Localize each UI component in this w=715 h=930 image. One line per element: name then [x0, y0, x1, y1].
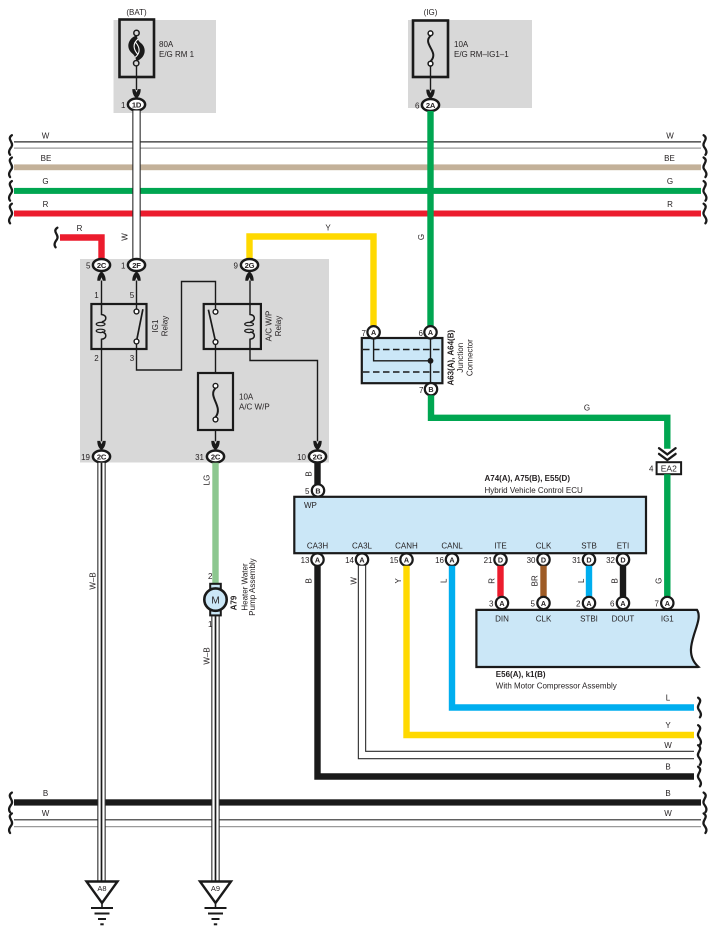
wire bus BE horizontal	[14, 154, 701, 170]
svg-text:BE: BE	[664, 154, 675, 163]
svg-text:2: 2	[208, 572, 213, 581]
wire L blue STB to STBI	[577, 566, 589, 597]
brace left of bus W bottom	[9, 813, 12, 833]
svg-text:30: 30	[527, 556, 536, 565]
svg-text:M: M	[211, 595, 219, 606]
connector B pin 7	[419, 383, 437, 395]
label With Motor Compressor Assembly	[496, 670, 617, 691]
svg-text:B: B	[305, 471, 314, 476]
svg-text:R: R	[667, 200, 673, 209]
svg-text:5: 5	[305, 487, 310, 496]
label Hybrid Vehicle Control ECU	[485, 474, 583, 495]
engine room relay block shading	[80, 259, 329, 463]
brace right of bus G	[703, 181, 706, 201]
svg-text:L: L	[666, 694, 671, 703]
BUSES	[9, 132, 706, 224]
svg-text:A63(A), A64(B): A63(A), A64(B)	[446, 330, 455, 386]
switch of A/C W/P relay	[208, 309, 218, 344]
connector B pin 5 on ECU	[305, 484, 324, 496]
arrow into connector 2A	[426, 90, 434, 100]
svg-text:W: W	[121, 233, 130, 241]
svg-text:DOUT: DOUT	[612, 614, 635, 623]
svg-text:W: W	[666, 132, 674, 141]
wire W white vertical from 1D to 2F	[121, 111, 137, 261]
brace right of wire L	[698, 698, 701, 718]
connector A pin 13	[301, 553, 324, 565]
label A79 Heater Water Pump Assembly	[230, 558, 258, 615]
svg-text:1: 1	[121, 101, 126, 110]
svg-text:D: D	[541, 555, 546, 564]
svg-text:DIN: DIN	[495, 614, 509, 623]
svg-text:W–B: W–B	[203, 647, 212, 664]
svg-text:31: 31	[572, 556, 581, 565]
svg-text:32: 32	[606, 556, 615, 565]
wire R red from brace to connector 2C	[60, 224, 102, 260]
svg-text:2C: 2C	[97, 261, 107, 270]
svg-text:B: B	[611, 578, 620, 583]
svg-text:E56(A), k1(B): E56(A), k1(B)	[496, 670, 546, 679]
svg-text:A: A	[586, 599, 591, 608]
ground A9	[200, 882, 231, 925]
wire from IG fuse to connector 2A	[430, 66, 432, 91]
svg-text:5: 5	[86, 262, 91, 271]
svg-text:W: W	[42, 809, 50, 818]
svg-text:14: 14	[345, 556, 354, 565]
svg-text:10: 10	[297, 453, 306, 462]
connector A pin 14	[345, 553, 368, 565]
connector D pin 30	[527, 553, 550, 565]
svg-text:G: G	[42, 177, 48, 186]
svg-text:CANL: CANL	[441, 542, 463, 551]
label A63(A), A64(B) Junction Connector	[446, 330, 474, 386]
relay A/C W/P box	[204, 304, 261, 349]
wire L blue CANL to right edge	[440, 566, 695, 708]
coil of A/C W/P relay	[250, 304, 254, 349]
svg-text:7: 7	[655, 600, 660, 609]
svg-text:A: A	[449, 555, 454, 564]
brace right of bus B	[703, 793, 706, 813]
svg-text:1: 1	[208, 620, 213, 629]
TOPFUSES	[120, 8, 510, 111]
svg-text:13: 13	[301, 556, 310, 565]
svg-text:4: 4	[649, 465, 654, 474]
wire pin3 IG1 relay to A/C W/P relay switch	[137, 282, 216, 371]
svg-text:A74(A), A75(B), E55(D): A74(A), A75(B), E55(D)	[485, 474, 571, 483]
svg-text:2: 2	[576, 600, 581, 609]
arrow into 2C pin 19	[97, 441, 105, 451]
wire bus W horizontal top	[14, 132, 701, 149]
svg-text:10A: 10A	[239, 393, 254, 402]
svg-text:B: B	[305, 578, 314, 583]
svg-text:W–B: W–B	[89, 572, 98, 589]
connector D pin 21	[484, 553, 507, 565]
connector A pin 6	[610, 597, 629, 609]
coil of IG1 relay	[102, 304, 106, 349]
svg-text:6: 6	[610, 600, 615, 609]
svg-text:Y: Y	[325, 224, 331, 233]
wire bus G horizontal	[14, 177, 701, 194]
svg-text:2G: 2G	[313, 452, 323, 461]
svg-text:A: A	[665, 599, 670, 608]
svg-text:Relay: Relay	[161, 316, 170, 336]
svg-text:A: A	[371, 328, 376, 337]
svg-text:D: D	[586, 555, 591, 564]
wire G green from junction B to EA2	[431, 395, 667, 449]
COMPRESSOR	[476, 566, 698, 691]
svg-text:10A: 10A	[454, 40, 469, 49]
svg-text:With Motor Compressor Assembly: With Motor Compressor Assembly	[496, 682, 617, 691]
MIDWIRES	[55, 111, 431, 328]
internal wire 7A to 6A	[374, 339, 431, 384]
svg-text:3: 3	[130, 354, 135, 363]
svg-text:W: W	[664, 809, 672, 818]
svg-text:15: 15	[390, 556, 399, 565]
svg-text:G: G	[584, 404, 590, 413]
svg-text:Connector: Connector	[465, 339, 474, 376]
svg-text:1: 1	[94, 291, 99, 300]
connector A pin 5	[531, 597, 550, 609]
BOTTOM	[9, 463, 706, 881]
connector 2C pin 5	[86, 259, 110, 271]
svg-text:2A: 2A	[426, 101, 436, 110]
svg-text:E/G RM–IG1–1: E/G RM–IG1–1	[454, 50, 509, 59]
svg-text:B: B	[315, 486, 320, 495]
fuse 10A A/C W/P	[198, 373, 270, 430]
wire Y yellow CANH to right edge	[394, 566, 694, 735]
arrow into 2G pin 10	[313, 441, 321, 451]
connector 2G pin 9	[234, 259, 259, 271]
svg-text:Hybrid Vehicle Control ECU: Hybrid Vehicle Control ECU	[485, 486, 583, 495]
svg-text:STB: STB	[581, 542, 597, 551]
wire Y yellow from relay 2G to junction connector	[250, 224, 374, 328]
brace right of wire B	[698, 767, 701, 787]
svg-text:R: R	[43, 200, 49, 209]
svg-text:A/C W/P: A/C W/P	[265, 311, 274, 342]
arrow into 2C	[97, 271, 105, 281]
svg-text:R: R	[77, 224, 83, 233]
connector A pin 7	[655, 597, 674, 609]
wire R red ITE to DIN	[488, 566, 501, 597]
svg-text:7: 7	[362, 329, 367, 338]
svg-text:A: A	[499, 599, 504, 608]
svg-text:6: 6	[419, 329, 424, 338]
svg-text:CLK: CLK	[536, 614, 552, 623]
MOTOR	[203, 463, 258, 629]
wire G green vertical from 2A to junction connector	[417, 111, 431, 327]
svg-text:CA3H: CA3H	[307, 542, 329, 551]
wire A/C W/P switch to fuse	[215, 344, 217, 373]
svg-text:W: W	[664, 741, 672, 750]
svg-text:Relay: Relay	[274, 316, 283, 336]
svg-text:(BAT): (BAT)	[126, 8, 147, 17]
svg-text:EA2: EA2	[661, 463, 677, 473]
wire B black 2G to ECU WP	[305, 463, 318, 485]
connector A pin 6	[419, 326, 437, 338]
svg-text:CLK: CLK	[536, 542, 552, 551]
arrow chevrons into EA2	[659, 448, 676, 460]
motor M A79 heater water pump	[204, 584, 226, 616]
svg-text:A: A	[541, 599, 546, 608]
arrow into connector 1D	[132, 89, 140, 99]
wire fuse to 2C bottom	[215, 430, 217, 441]
wire from fuse to connector 1D	[136, 66, 138, 90]
connector D pin 32	[606, 553, 629, 565]
svg-text:CANH: CANH	[395, 542, 418, 551]
brace right of bus W bottom	[703, 813, 706, 833]
svg-text:2: 2	[94, 354, 99, 363]
junction connector A63(A) A64(B) body	[362, 338, 443, 383]
svg-text:LG: LG	[203, 475, 212, 486]
svg-text:A: A	[404, 555, 409, 564]
brace left of bus W	[9, 135, 12, 155]
connector 2F pin 1	[121, 259, 145, 271]
svg-text:B: B	[428, 385, 433, 394]
svg-text:5: 5	[531, 600, 536, 609]
fuse 80A E/G RM 1 (BAT)	[120, 8, 195, 77]
svg-text:IG1: IG1	[151, 319, 160, 332]
connector 2A pin 6	[415, 99, 439, 111]
wire 2G to A/C W/P coil	[249, 281, 251, 305]
brace right of bus R	[703, 204, 706, 224]
connector A pin 16	[435, 553, 458, 565]
wire bus B horizontal bottom	[14, 789, 701, 806]
svg-text:A: A	[359, 555, 364, 564]
svg-text:G: G	[667, 177, 673, 186]
svg-text:Y: Y	[394, 577, 403, 583]
svg-text:B: B	[43, 789, 48, 798]
svg-text:L: L	[440, 578, 449, 583]
junction dot	[428, 358, 434, 364]
connector D pin 31	[572, 553, 595, 565]
ECU U1 box	[294, 497, 646, 553]
connector A pin 3	[489, 597, 508, 609]
arrow into 2C pin 31	[211, 441, 219, 451]
label IG1 Relay	[151, 316, 170, 336]
svg-text:Y: Y	[665, 721, 671, 730]
svg-text:WP: WP	[304, 501, 317, 510]
wire pin2 IG1 relay to 2C	[101, 349, 103, 441]
svg-text:W: W	[42, 132, 50, 141]
connector 1D pin 1	[121, 99, 145, 111]
brace right of bus BE	[703, 158, 706, 178]
switch of IG1 relay	[134, 309, 143, 344]
svg-text:21: 21	[484, 556, 493, 565]
svg-text:G: G	[417, 234, 426, 240]
svg-text:9: 9	[234, 262, 239, 271]
svg-text:A79: A79	[230, 595, 239, 610]
wire B black ETI to DOUT	[611, 566, 624, 597]
svg-text:A: A	[620, 599, 625, 608]
wire W-B from pump to ground A9	[203, 615, 216, 881]
svg-text:A8: A8	[97, 884, 106, 893]
brace left of bus R	[9, 204, 12, 224]
brace right of bus W	[703, 135, 706, 155]
connector EA2 pin 4	[649, 462, 681, 474]
connector 2C pin 19	[81, 451, 110, 463]
dashed row line 1	[363, 349, 441, 351]
wire G green from EA2 to compressor IG1	[655, 474, 668, 597]
svg-text:A: A	[428, 328, 433, 337]
wire W white CA3L to right edge	[350, 566, 695, 755]
motor compressor assembly box	[476, 610, 698, 667]
svg-text:2F: 2F	[132, 261, 141, 270]
svg-text:5: 5	[130, 291, 135, 300]
wire bus R horizontal	[14, 200, 701, 217]
fuse 10A E/G RM-IG1-1 (IG)	[413, 8, 509, 77]
brace left of bus G	[9, 181, 12, 201]
svg-text:E/G RM 1: E/G RM 1	[159, 50, 195, 59]
svg-text:1D: 1D	[132, 100, 142, 109]
connector A pin 15	[390, 553, 413, 565]
wire B black CA3H to right edge	[305, 566, 695, 777]
svg-text:G: G	[655, 578, 664, 584]
svg-text:31: 31	[195, 453, 204, 462]
svg-text:19: 19	[81, 453, 90, 462]
engine room junction block shading for fuse E/G RM-IG1-1	[408, 20, 532, 108]
RELAYS	[81, 259, 326, 463]
svg-text:BE: BE	[41, 154, 52, 163]
svg-text:A/C W/P: A/C W/P	[239, 403, 270, 412]
svg-text:L: L	[577, 578, 586, 583]
svg-text:2G: 2G	[245, 261, 255, 270]
svg-text:ITE: ITE	[494, 542, 506, 551]
svg-text:1: 1	[121, 262, 126, 271]
connector A pin 7	[362, 326, 380, 338]
svg-text:B: B	[665, 789, 670, 798]
connector A pin 2	[576, 597, 595, 609]
wire BR brown CLK to CLK	[531, 566, 544, 597]
svg-text:80A: 80A	[159, 40, 174, 49]
connector 2C pin 31	[195, 451, 224, 463]
ground A8	[87, 882, 118, 925]
brace right of wire Y	[698, 725, 701, 745]
brace right of wire W	[698, 745, 701, 765]
svg-text:3: 3	[489, 600, 494, 609]
svg-text:7: 7	[419, 386, 424, 395]
brace on red wire stub	[55, 228, 58, 248]
svg-text:ETI: ETI	[617, 542, 629, 551]
wire A/C W/P coil to 2G bottom	[250, 349, 318, 441]
wire pin1 IG1 relay	[101, 281, 103, 305]
svg-text:BR: BR	[531, 575, 540, 586]
svg-text:2C: 2C	[97, 452, 107, 461]
svg-text:Pump Assembly: Pump Assembly	[248, 558, 257, 615]
arrow into 2G	[245, 271, 253, 281]
connector 2G pin 10	[297, 451, 326, 463]
svg-text:D: D	[498, 555, 503, 564]
svg-text:A: A	[315, 555, 320, 564]
svg-text:2C: 2C	[211, 452, 221, 461]
ECU	[294, 463, 646, 566]
engine room junction block shading for fuse E/G RM 1	[114, 20, 217, 113]
label A/C W/P Relay	[265, 311, 284, 342]
svg-text:STBI: STBI	[580, 614, 598, 623]
JUNCTION	[362, 326, 682, 597]
relay IG1 box	[91, 304, 146, 349]
svg-text:D: D	[620, 555, 625, 564]
wire pin5 IG1 relay	[136, 281, 138, 310]
arrow into 2F	[132, 271, 140, 281]
dashed row line 2	[363, 371, 441, 373]
svg-text:B: B	[665, 763, 670, 772]
wire LG from 2C pin31 to pump	[203, 463, 216, 584]
svg-text:16: 16	[435, 556, 444, 565]
svg-text:W: W	[350, 577, 359, 585]
wire bus W horizontal bottom	[14, 809, 701, 827]
brace left of bus BE	[9, 158, 12, 178]
wire W-B from relay 2C pin19 to ground A8	[89, 463, 102, 881]
GROUNDS	[87, 882, 232, 925]
svg-text:Junction: Junction	[456, 343, 465, 373]
svg-text:A9: A9	[211, 884, 220, 893]
svg-text:6: 6	[415, 102, 420, 111]
svg-text:IG1: IG1	[661, 614, 674, 623]
svg-text:CA3L: CA3L	[352, 542, 373, 551]
svg-text:(IG): (IG)	[424, 8, 438, 17]
svg-text:R: R	[488, 578, 497, 584]
brace left of bus B	[9, 793, 12, 813]
